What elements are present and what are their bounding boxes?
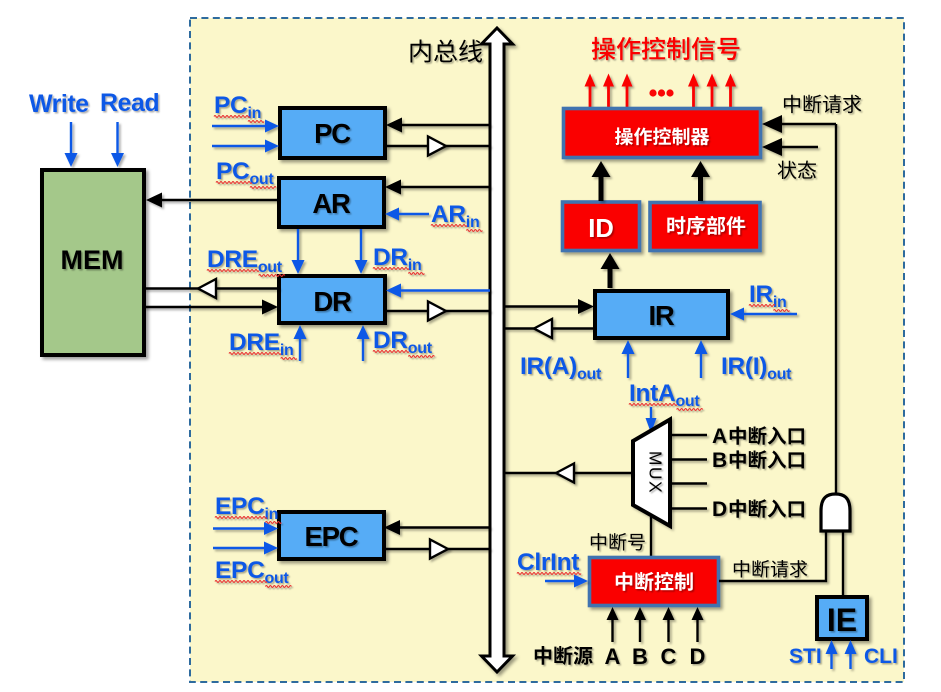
wire MUX output to bus with buffer <box>505 472 632 474</box>
wire interrupt controller to AND gate <box>719 531 826 581</box>
wire IntAout arrow into MUX <box>646 407 657 433</box>
label Write <box>29 90 89 118</box>
wire IRin arrow into IR <box>730 308 797 321</box>
label IR(I)out <box>721 353 792 383</box>
register AR <box>279 178 384 227</box>
label 中断号 <box>591 533 645 551</box>
wire status into controller <box>781 146 818 148</box>
wire timing unit to controller <box>691 161 710 201</box>
multiplexer MUX <box>633 420 670 527</box>
register EPC <box>279 512 384 559</box>
svg-text:ClrInt: ClrInt <box>517 549 579 576</box>
memory MEM <box>42 170 144 355</box>
svg-text:IR: IR <box>648 300 674 331</box>
label 状态 (status) <box>778 161 817 179</box>
register PC <box>280 108 385 158</box>
register DR <box>279 276 385 323</box>
decoder ID box <box>563 202 640 251</box>
wire EPCin arrows into EPC <box>213 522 278 535</box>
wire bus to DR (blue) <box>386 284 490 298</box>
wire MUX input B <box>670 458 707 460</box>
label EPCin <box>215 493 281 523</box>
svg-text:A: A <box>605 644 621 669</box>
svg-text:MEM: MEM <box>61 245 124 275</box>
svg-text:PC: PC <box>314 118 351 149</box>
label 中断源 <box>535 646 593 665</box>
svg-text:MUX: MUX <box>646 451 666 494</box>
wire IR(A)out gate arrow <box>622 340 635 378</box>
svg-text:AR: AR <box>312 188 351 219</box>
wire MUX to interrupt controller <box>650 517 652 557</box>
wire ARin arrow into AR <box>385 208 429 221</box>
AND gate <box>821 494 850 531</box>
wire MEM to DR <box>144 300 278 315</box>
red ellipsis dots <box>649 89 656 96</box>
register IR <box>595 291 728 338</box>
wire DR to bus with buffer <box>385 310 490 312</box>
svg-text:D: D <box>690 644 706 669</box>
svg-text:ID: ID <box>588 215 614 243</box>
wire Write arrow into MEM <box>65 122 78 167</box>
labels A B C D <box>605 644 621 669</box>
wire IR to ID <box>601 253 620 288</box>
label ARin <box>431 201 482 231</box>
wire IR to bus with buffer <box>505 327 593 329</box>
wire MUX input C (unlabelled) <box>670 482 707 484</box>
label DRin <box>373 244 424 274</box>
label PCout <box>216 158 276 188</box>
label DRout <box>373 327 434 357</box>
label 内总线 <box>410 39 482 62</box>
label EPCout <box>215 557 291 587</box>
label STI <box>789 645 822 668</box>
label IR(A)out <box>520 353 602 383</box>
label PCin <box>214 92 264 122</box>
svg-text:EPC: EPC <box>305 521 359 552</box>
wire IR(I)out gate arrow <box>695 340 708 378</box>
svg-text:Write: Write <box>29 90 89 118</box>
wire STI arrow into IE <box>826 640 838 669</box>
wire EPC to bus with buffer <box>384 548 490 550</box>
wire interrupt source arrows A B C D <box>607 607 619 642</box>
wire AR to MEM <box>146 193 278 208</box>
wire MUX input A <box>670 434 707 436</box>
wire bus to PC <box>386 118 490 133</box>
timing unit box 时序部件 <box>650 203 760 251</box>
svg-text:DR: DR <box>313 286 352 317</box>
wire ID to controller <box>592 161 611 201</box>
svg-text:B: B <box>712 449 727 472</box>
red control signal arrows <box>585 74 596 108</box>
svg-text:C: C <box>661 644 677 669</box>
svg-text:A: A <box>712 425 727 448</box>
flip-flop IE <box>817 597 867 639</box>
wire DR to MEM with buffer <box>279 146 490 289</box>
label A中断入口 <box>712 425 727 448</box>
label IntAout <box>629 380 703 410</box>
dashed boundary of CPU internal area <box>190 18 904 682</box>
internal bus (vertical double arrow) with label 内总线 <box>482 28 513 672</box>
wire IE to AND gate <box>842 531 844 596</box>
label Read <box>100 89 159 117</box>
interrupt controller box 中断控制 <box>590 558 719 606</box>
label DREin <box>229 329 297 359</box>
svg-text:STI: STI <box>789 645 822 668</box>
wire CLI arrow into IE <box>845 640 857 669</box>
label CLI <box>864 645 898 668</box>
svg-text:D: D <box>712 498 727 521</box>
label 中断请求 (top) <box>784 95 861 114</box>
svg-text:IE: IE <box>827 602 857 638</box>
wire DR bottom gate arrows (blue, up) <box>294 325 307 361</box>
wire bus to EPC <box>384 520 490 535</box>
wire bus to IR <box>505 299 594 314</box>
wire MUX input D <box>670 507 707 509</box>
label IRin <box>749 281 790 311</box>
svg-text:Read: Read <box>100 89 159 117</box>
wire PC to bus with buffer <box>386 145 490 147</box>
label ClrInt <box>517 549 581 576</box>
label D中断入口 <box>712 498 727 521</box>
wire vertical interrupt-request line <box>835 124 837 494</box>
label 中断请求 (bottom) <box>734 560 808 578</box>
controller box 操作控制器 <box>564 109 761 158</box>
wire Read arrow into MEM <box>111 122 124 167</box>
label B中断入口 <box>712 449 727 472</box>
svg-text:B: B <box>632 644 648 669</box>
wire interrupt request into controller <box>781 123 836 125</box>
title 操作控制信号 (operation control signals) <box>592 37 740 60</box>
wire bus to AR <box>385 180 490 195</box>
wire ClrInt arrow into interrupt controller <box>545 575 588 588</box>
wire AR to DR gate arrows (blue, down) <box>292 229 305 274</box>
svg-text:CLI: CLI <box>864 645 898 668</box>
wire PCin arrows into PC <box>212 120 279 133</box>
label DREout <box>207 246 285 276</box>
